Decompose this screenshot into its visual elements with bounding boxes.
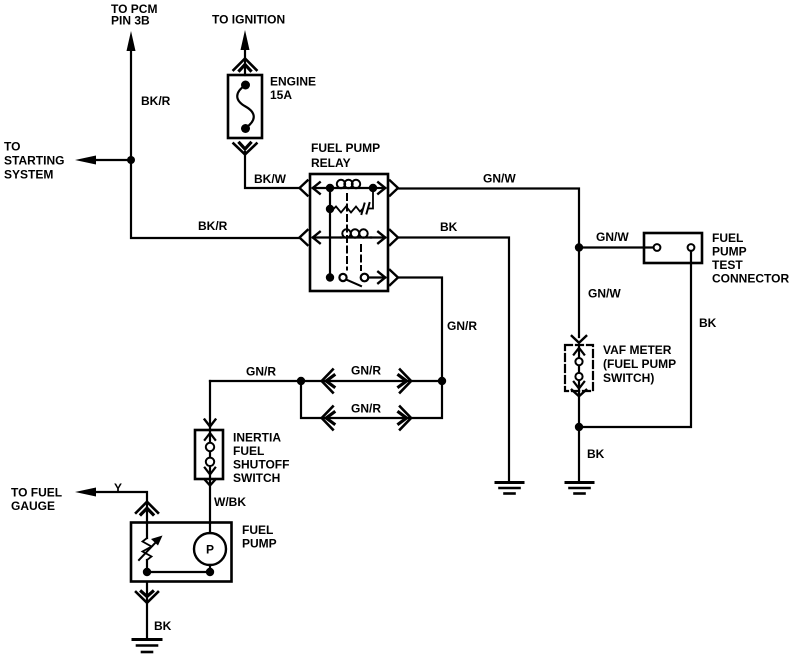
svg-text:SHUTOFF: SHUTOFF	[233, 458, 289, 472]
svg-text:VAF METER: VAF METER	[603, 343, 672, 357]
wire: pump internal bottom	[147, 571, 210, 573]
VAF meter dashed box	[565, 345, 593, 391]
relay coil 1 wire	[330, 187, 373, 189]
ground symbol middle	[496, 481, 523, 484]
relay pin1 outside chevron (right)	[390, 181, 398, 196]
svg-text:P: P	[206, 543, 214, 557]
svg-text:BK: BK	[154, 619, 172, 633]
svg-text:FUEL: FUEL	[712, 231, 743, 245]
node: switch left dot	[326, 273, 334, 281]
svg-text:GN/R: GN/R	[351, 402, 381, 416]
fuel pump box	[131, 523, 232, 582]
svg-text:GN/R: GN/R	[351, 364, 381, 378]
svg-text:Y: Y	[114, 481, 122, 495]
test connector pin circle right	[688, 244, 695, 251]
svg-text:BK/W: BK/W	[254, 172, 287, 186]
node: motor bottom dot	[206, 568, 214, 576]
switch left terminal circle	[339, 274, 346, 281]
relay resistor row wire left	[329, 188, 331, 209]
svg-text:SYSTEM: SYSTEM	[4, 168, 53, 182]
connector chevron down (inertia bottom)	[205, 480, 216, 486]
connector chevron double up (pump top)	[136, 502, 158, 513]
inertia internal wire	[209, 430, 211, 479]
svg-text:GN/R: GN/R	[447, 319, 477, 333]
svg-text:RELAY: RELAY	[311, 156, 351, 170]
relay pin2 inside arrow	[313, 236, 341, 238]
wire: BK below pump	[146, 582, 148, 638]
svg-text:FUEL: FUEL	[233, 444, 264, 458]
svg-text:STARTING: STARTING	[4, 154, 64, 168]
svg-text:GN/W: GN/W	[596, 230, 629, 244]
node: BK junction below VAF	[575, 423, 583, 431]
node: sender bottom dot	[143, 568, 151, 576]
node: relay coil1 right dot	[369, 184, 377, 192]
connector chevrons left (top path)	[322, 370, 333, 393]
relay dashed actuator line 2	[360, 245, 362, 270]
fuel sender zigzag	[143, 538, 152, 560]
svg-text:15A: 15A	[270, 88, 292, 102]
svg-text:CONNECTOR: CONNECTOR	[712, 272, 789, 286]
svg-text:GN/R: GN/R	[246, 365, 276, 379]
connector chevrons right (bottom path)	[400, 407, 411, 430]
inertia terminal circle top	[206, 443, 214, 451]
wire: to starting system	[93, 159, 131, 161]
ground symbol right	[566, 481, 593, 484]
svg-text:TO: TO	[4, 140, 20, 154]
relay pin2 outside chevron (left, BK/R)	[300, 230, 308, 245]
wire: BK from test connector down and left	[583, 251, 691, 427]
wire: W/BK inertia to fuel pump	[209, 479, 211, 523]
svg-text:GN/W: GN/W	[588, 287, 621, 301]
switch to pin3 wire	[369, 276, 386, 278]
svg-text:SWITCH): SWITCH)	[603, 371, 654, 385]
relay box FUEL PUMP RELAY	[310, 174, 388, 291]
VAF internal arrow up	[574, 348, 584, 355]
svg-text:W/BK: W/BK	[214, 495, 246, 509]
wire: Y to fuel gauge	[93, 492, 147, 523]
test connector pin circle left	[654, 244, 661, 251]
wire: GN/R from relay pin3 down	[301, 278, 442, 419]
fuel sender variable arrow	[139, 541, 157, 560]
VAF internal arrow down	[574, 382, 584, 389]
fuel sender wire top	[146, 523, 148, 538]
wire: GN/R down to inertia switch	[209, 381, 211, 430]
relay pin1 right arrow out	[373, 187, 385, 189]
svg-text:BK/R: BK/R	[198, 219, 228, 233]
relay pin3 outside chevron (right, GN/R)	[390, 270, 398, 285]
connector chevron up (VAF top)	[572, 336, 586, 343]
inertia internal arrow up	[205, 433, 215, 440]
svg-text:BK: BK	[699, 316, 717, 330]
node: GN/R left junction	[297, 377, 305, 385]
arrow to fuel gauge (left)	[75, 488, 96, 497]
svg-text:GN/W: GN/W	[483, 172, 516, 186]
relay pin2 outside chevron (right, BK)	[390, 230, 398, 245]
fuse ENGINE 15A box	[228, 75, 262, 138]
svg-text:PIN 3B: PIN 3B	[111, 14, 150, 28]
svg-text:BK: BK	[440, 220, 458, 234]
wire: BK from relay pin2 right down to ground	[398, 238, 509, 483]
svg-text:FUEL: FUEL	[242, 523, 273, 537]
svg-text:INERTIA: INERTIA	[233, 431, 281, 445]
wire: GN/W VAF to ground junction	[578, 391, 580, 482]
VAF internal wire	[578, 345, 580, 391]
node: GN/W junction	[575, 243, 583, 251]
resistor zigzag inside relay	[330, 207, 362, 213]
wire: GN/R top path	[210, 380, 442, 382]
relay coil 2 loops	[342, 229, 350, 237]
fuse terminal dot top	[241, 81, 250, 90]
svg-text:BK: BK	[587, 447, 605, 461]
VAF terminal circle top	[575, 358, 582, 365]
wire: GN/W from relay to right	[398, 189, 579, 338]
relay left vertical to switch	[329, 209, 331, 278]
fuse terminal dot bottom	[241, 124, 250, 133]
svg-text:PUMP: PUMP	[712, 245, 747, 259]
arrow to ignition (up)	[241, 30, 250, 50]
node: resistor left dot	[326, 205, 334, 213]
wire from ticks up to coil1 right dot	[369, 188, 373, 209]
relay dashed actuator line 1	[346, 194, 348, 270]
connector chevron double up (fuse top)	[234, 59, 257, 71]
arrow to PCM (up)	[127, 31, 136, 51]
relay pin2 right arrow out	[371, 236, 385, 238]
svg-text:BK/R: BK/R	[141, 94, 171, 108]
wire: motor top lead	[209, 523, 211, 533]
svg-text:ENGINE: ENGINE	[270, 75, 316, 89]
connector chevrons right (top path)	[400, 370, 411, 393]
svg-text:FUEL PUMP: FUEL PUMP	[311, 141, 380, 155]
wire: GN/W branch to test connector	[579, 246, 656, 248]
wire: motor bottom lead	[209, 565, 211, 572]
inertia fuel shutoff switch box	[195, 430, 223, 479]
capacitor-like ticks	[362, 203, 370, 214]
fuel pump motor circle P	[194, 533, 226, 565]
fuse element S-curve	[237, 85, 254, 128]
svg-text:TEST: TEST	[712, 258, 743, 272]
relay coil 1 loops	[337, 180, 345, 188]
connector chevron double down (fuse bottom)	[240, 143, 251, 149]
inertia internal arrow down	[205, 468, 215, 475]
ground symbol bottom left	[133, 638, 161, 641]
relay pin1 outside chevron (left)	[300, 181, 308, 196]
connector chevron down (VAF bottom)	[572, 390, 586, 397]
node: junction at starting system	[127, 156, 135, 164]
relay pin1 inside arrow (left)	[313, 187, 330, 189]
wire: fuse stem up to ignition	[244, 46, 246, 75]
wire: BK/R main vertical from PCM arrow down to starting-system junction and BK/R corner	[131, 48, 299, 238]
svg-text:TO FUEL: TO FUEL	[11, 486, 62, 500]
switch right terminal circle	[361, 274, 369, 282]
inertia terminal circle bottom	[206, 458, 214, 466]
connector chevron up (inertia top)	[205, 420, 216, 427]
connector chevron double down (pump bottom)	[141, 592, 152, 597]
switch blade	[347, 280, 361, 286]
svg-text:PUMP: PUMP	[242, 537, 277, 551]
svg-text:GAUGE: GAUGE	[11, 499, 55, 513]
relay coil 2 wire	[341, 236, 371, 238]
fuel pump test connector box	[644, 233, 702, 263]
fuel sender wire bottom	[146, 560, 148, 572]
node: relay coil1 left dot	[326, 184, 334, 192]
arrow to starting system (left)	[75, 156, 96, 165]
connector chevrons left (bottom path)	[322, 407, 333, 430]
wire: BK/W from fuse to relay pin 1	[245, 152, 299, 188]
svg-text:TO IGNITION: TO IGNITION	[212, 13, 285, 27]
node: GN/R right junction	[438, 377, 446, 385]
svg-text:(FUEL PUMP: (FUEL PUMP	[603, 357, 676, 371]
VAF terminal circle bottom	[575, 373, 582, 380]
svg-text:SWITCH: SWITCH	[233, 471, 280, 485]
